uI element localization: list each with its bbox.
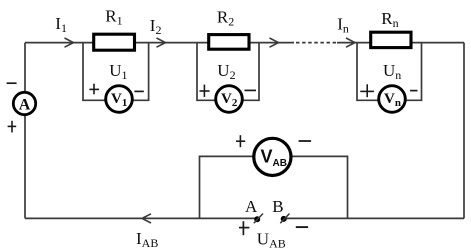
arrow: after R2 on top wire	[270, 38, 279, 47]
polarity plus at ammeter	[8, 121, 17, 133]
resistor R1	[94, 34, 135, 50]
wire: top horizontal bus (right solid part)	[337, 42, 464, 44]
polarity minus at V1	[134, 90, 143, 92]
wire: top horizontal bus (left solid part)	[25, 42, 294, 44]
voltmeter V2	[216, 86, 243, 113]
polarity minus at Vn	[410, 90, 417, 92]
resistor Rn	[371, 32, 411, 47]
wire: VAB branch (left leg, stub across, right leg)	[200, 156, 348, 218]
arrow: current I2 on top wire	[157, 38, 166, 47]
wire: top dashed segment	[296, 42, 336, 44]
polarity minus at VAB	[299, 140, 312, 142]
polarity plus at terminal A	[239, 221, 249, 235]
polarity minus at ammeter	[7, 82, 17, 84]
polarity plus at Vn	[360, 84, 374, 97]
wire: bottom bus left of terminal A	[25, 217, 255, 219]
polarity plus at V2	[200, 85, 210, 97]
terminal dot B	[281, 216, 287, 222]
resistor R2	[209, 35, 249, 50]
svg-text:A: A	[245, 197, 258, 216]
wire: V1 branch (drops and stub)	[83, 43, 149, 101]
wire: left vertical branch (through ammeter)	[24, 43, 26, 219]
wire: bottom bus right of terminal B	[286, 217, 464, 219]
polarity plus at VAB	[236, 135, 245, 147]
voltmeter V1	[106, 86, 133, 113]
terminal tick B	[280, 214, 289, 224]
terminal tick A	[254, 214, 263, 224]
voltmeter Vn	[379, 86, 406, 113]
polarity plus at V1	[89, 84, 99, 95]
wire: Vn branch (drops and stub)	[357, 43, 422, 101]
wire: V2 branch (drops and stub)	[197, 43, 259, 101]
polarity minus at terminal B	[296, 226, 308, 228]
voltmeter VAB	[254, 138, 291, 175]
arrow: current In on top wire	[346, 38, 355, 47]
ammeter A	[13, 92, 35, 114]
svg-text:B: B	[272, 197, 283, 216]
terminal dot A	[254, 216, 260, 222]
wire: right vertical branch	[463, 43, 465, 219]
arrow: current I1 on top wire	[65, 38, 74, 47]
polarity minus at V2	[245, 89, 257, 91]
arrow: current IAB on bottom wire (points left)	[142, 214, 151, 223]
svg-text:A: A	[19, 96, 31, 113]
